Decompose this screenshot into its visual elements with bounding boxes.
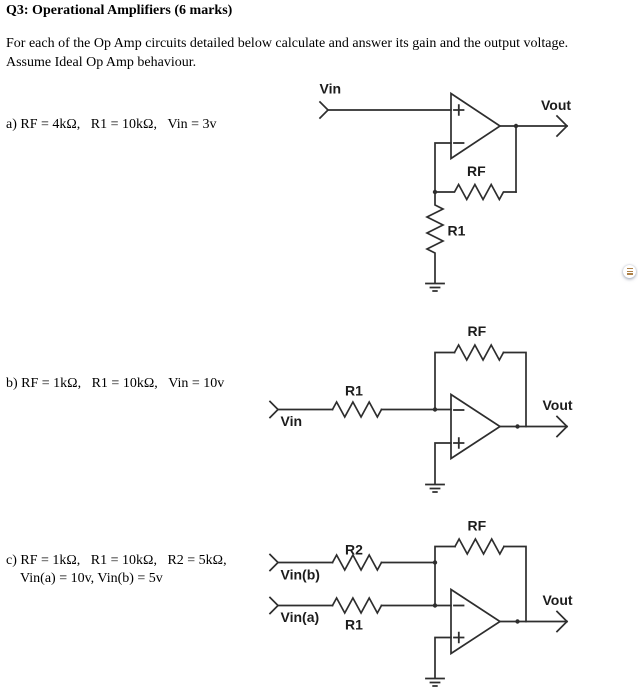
wire RF to output node (a) (515, 126, 517, 192)
plus sign inside op-amp (c) (454, 633, 464, 643)
wire R2 to summing node (c) (382, 562, 436, 564)
resistor R1 (c) (333, 598, 382, 613)
resistor R2 (c) (333, 555, 382, 570)
input arrow Vin (a) (320, 102, 328, 118)
op-amp U3 triangle (c) (451, 590, 500, 654)
resistor RF (b) (455, 345, 504, 360)
output arrow Vout (b) (557, 417, 567, 437)
wire op-amp output to Vout (a) (500, 125, 567, 127)
wire Vin(b) to R2 (c) (278, 562, 333, 564)
wire RF to output (c) (504, 547, 526, 622)
op-amp U2 triangle (b) (451, 395, 500, 459)
minus sign inside op-amp (b) (454, 409, 464, 411)
ground (c) (426, 679, 444, 687)
svg-text:RF: RF (468, 323, 487, 339)
svg-text:R2: R2 (345, 542, 363, 558)
input arrow Vin(b) (c) (270, 555, 278, 571)
node dot output (c) (515, 619, 519, 623)
input arrow Vin(a) (c) (270, 598, 278, 614)
ground (a) (426, 284, 444, 292)
item b text (6, 375, 224, 393)
ground (b) (426, 485, 444, 493)
wire node up to RF (b) (435, 353, 455, 410)
node dot output (b) (515, 424, 519, 428)
wire summing node up to RF (c) (435, 547, 455, 606)
svg-text:Vin(a): Vin(a) (281, 609, 320, 625)
svg-text:RF: RF (468, 518, 487, 534)
output arrow Vout (a) (557, 116, 567, 136)
svg-text:Vout: Vout (543, 397, 573, 413)
item a text (6, 116, 217, 134)
wire plus input to ground (b) (435, 443, 451, 484)
wire inverting input to node (a) (435, 143, 451, 192)
resistor R1 vertical (a) (427, 192, 443, 283)
annotation menu button (623, 265, 636, 278)
svg-text:R1: R1 (345, 617, 363, 633)
minus sign inside op-amp (a) (454, 142, 464, 144)
menu icon bars (627, 268, 633, 269)
resistor RF (c) (455, 539, 504, 554)
svg-text:Vout: Vout (543, 592, 573, 608)
wire Vin(a) to R1 (c) (278, 605, 333, 607)
plus sign inside op-amp (b) (454, 438, 464, 448)
op-amp U1 triangle (a) (451, 94, 500, 159)
node dot R2 junction (c) (433, 560, 437, 564)
wire op-amp output to Vout (b) (500, 426, 567, 428)
svg-text:Vin: Vin (320, 81, 342, 97)
wire plus input to ground (c) (435, 638, 451, 679)
paragraph (6, 35, 568, 72)
svg-text:Vin: Vin (281, 413, 303, 429)
node dot inverting junction (b) (433, 407, 437, 411)
wire RF to output (b) (504, 353, 527, 427)
plus sign inside op-amp (a) (454, 105, 464, 115)
wire R1 to op-amp minus input (b) (382, 409, 452, 411)
node dot inverting junction (a) (433, 190, 437, 194)
svg-text:Vin(b): Vin(b) (281, 567, 320, 583)
node dot inverting junction (c) (433, 603, 437, 607)
resistor RF (a) (435, 185, 516, 200)
output arrow Vout (c) (557, 612, 567, 632)
item c text (6, 552, 227, 589)
svg-text:RF: RF (467, 163, 486, 179)
resistor R1 (b) (333, 402, 382, 417)
svg-text:Vout: Vout (541, 97, 571, 113)
minus sign inside op-amp (c) (454, 605, 464, 607)
wire R1 to op-amp minus input (c) (382, 605, 452, 607)
wire op-amp output to Vout (c) (500, 621, 567, 623)
title (6, 2, 232, 20)
wire Vin to op-amp + input (a) (328, 109, 451, 111)
node dot output (a) (514, 124, 518, 128)
svg-text:R1: R1 (448, 223, 466, 239)
svg-text:R1: R1 (345, 383, 363, 399)
wire Vin to R1 (b) (278, 409, 333, 411)
input arrow Vin (b) (270, 402, 278, 418)
